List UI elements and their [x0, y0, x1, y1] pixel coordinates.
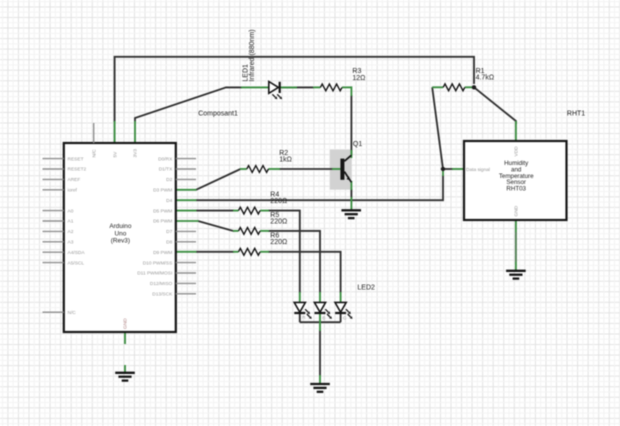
svg-text:D4: D4	[166, 198, 172, 204]
svg-text:RESET: RESET	[68, 156, 84, 162]
svg-text:Data signal: Data signal	[466, 167, 490, 173]
svg-text:3V3: 3V3	[133, 149, 139, 158]
svg-text:N/C: N/C	[91, 149, 97, 158]
svg-text:A5/SCL: A5/SCL	[68, 260, 85, 266]
svg-text:D1/TX: D1/TX	[159, 167, 173, 173]
svg-text:12Ω: 12Ω	[352, 75, 365, 82]
svg-text:A3: A3	[68, 240, 74, 246]
svg-text:D9 PWM: D9 PWM	[153, 250, 172, 256]
svg-text:Composant1: Composant1	[198, 110, 238, 117]
svg-text:D11 PWM/MOSI: D11 PWM/MOSI	[137, 271, 172, 277]
svg-text:Infrared (880nm): Infrared (880nm)	[249, 29, 256, 81]
svg-text:N/C: N/C	[68, 310, 77, 316]
svg-text:(Rev3): (Rev3)	[111, 238, 130, 245]
svg-text:VDD: VDD	[514, 146, 520, 157]
svg-text:220Ω: 220Ω	[270, 218, 287, 225]
svg-text:D5 PWM: D5 PWM	[153, 208, 172, 214]
svg-text:D12/MISO: D12/MISO	[150, 281, 173, 287]
svg-text:D13/SCK: D13/SCK	[152, 292, 173, 298]
svg-text:1kΩ: 1kΩ	[279, 156, 292, 163]
svg-text:GND: GND	[514, 205, 520, 216]
svg-text:5V: 5V	[112, 151, 118, 158]
svg-text:B: B	[322, 315, 325, 320]
svg-text:A2: A2	[68, 229, 74, 235]
svg-text:220Ω: 220Ω	[270, 239, 287, 246]
svg-text:Q1: Q1	[353, 141, 362, 148]
svg-text:220Ω: 220Ω	[270, 198, 287, 205]
svg-text:D3 PWM: D3 PWM	[153, 188, 172, 194]
svg-text:G: G	[343, 315, 347, 320]
svg-text:Uno: Uno	[115, 230, 127, 237]
svg-text:ioref: ioref	[68, 188, 78, 194]
svg-text:RHT1: RHT1	[567, 110, 585, 117]
svg-text:D2: D2	[166, 177, 172, 183]
svg-text:4.7kΩ: 4.7kΩ	[476, 75, 494, 82]
svg-text:D7: D7	[166, 229, 172, 235]
svg-text:D8: D8	[166, 240, 172, 246]
svg-text:D0/RX: D0/RX	[158, 156, 173, 162]
svg-text:GND: GND	[123, 318, 129, 329]
svg-text:D10 PWM/SS: D10 PWM/SS	[143, 260, 173, 266]
svg-text:A0: A0	[68, 208, 74, 214]
svg-text:LED2: LED2	[357, 285, 375, 292]
svg-text:RESET2: RESET2	[68, 167, 87, 173]
svg-text:AREF: AREF	[68, 177, 81, 183]
svg-text:D6 PWM: D6 PWM	[153, 219, 172, 225]
svg-text:RHT03: RHT03	[506, 185, 526, 192]
svg-text:Arduino: Arduino	[109, 223, 131, 230]
svg-text:A4/SDA: A4/SDA	[68, 250, 86, 256]
svg-text:A1: A1	[68, 219, 74, 225]
